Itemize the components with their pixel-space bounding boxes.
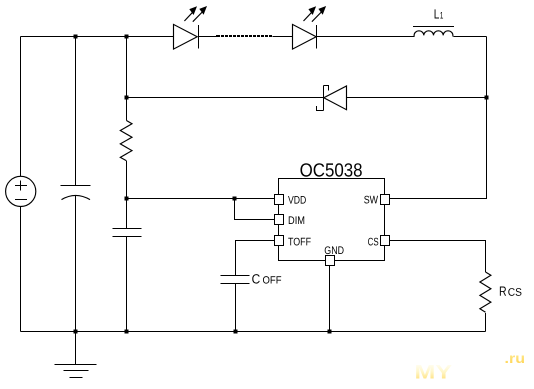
- svg-text:MY: MY: [415, 363, 453, 384]
- svg-text:CS: CS: [508, 287, 522, 299]
- svg-text:SW: SW: [364, 194, 379, 206]
- svg-text:R: R: [499, 284, 507, 299]
- svg-text:DIM: DIM: [288, 215, 305, 227]
- svg-text:1: 1: [440, 11, 444, 22]
- svg-text:OC5038: OC5038: [300, 161, 363, 182]
- svg-text:TOFF: TOFF: [288, 236, 311, 248]
- svg-text:VDD: VDD: [288, 195, 306, 207]
- svg-text:C: C: [252, 272, 261, 287]
- svg-text:OFF: OFF: [262, 275, 281, 287]
- svg-text:CS: CS: [368, 236, 379, 248]
- svg-text:.ru: .ru: [505, 351, 526, 366]
- svg-text:L: L: [434, 7, 440, 22]
- svg-text:GND: GND: [324, 245, 344, 257]
